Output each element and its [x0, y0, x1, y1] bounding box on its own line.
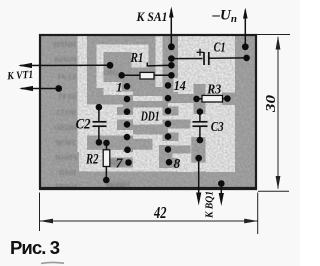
C1 plus sign — [197, 49, 204, 56]
white island left channel W3 — [97, 45, 104, 89]
BQ short arrow — [219, 193, 224, 206]
bottom cropped figure hint — [41, 262, 64, 263]
svg-text:Рис. 3: Рис. 3 — [10, 237, 60, 258]
right ext top (board edge extension) — [256, 34, 290, 36]
pad R1 right — [168, 72, 175, 79]
wire K VT1 #1 — [20, 64, 110, 66]
wire -Un up — [244, 10, 246, 47]
-Un arrow — [243, 8, 248, 19]
svg-text:КОНЧ: КОНЧ — [54, 55, 77, 64]
svg-text:ЕГХІ: ЕГХІ — [58, 72, 76, 81]
pad R1 left — [118, 72, 125, 79]
white left comb base — [87, 105, 123, 169]
dim 42 right arrowhead — [244, 219, 258, 224]
pad C3 top — [197, 108, 204, 115]
pad VT1 wire1 — [107, 62, 114, 69]
white R1 label area W4 — [132, 45, 149, 68]
svg-text:ХНЗВ: ХНЗВ — [56, 138, 76, 147]
pad DD1 pin 14 — [165, 82, 172, 89]
white strip W1 left — [78, 36, 88, 152]
board copper background — [40, 35, 256, 188]
pad K BQ1 b — [218, 180, 225, 187]
pad -Un — [242, 43, 249, 50]
pin1 block — [122, 82, 141, 92]
capacitor C3 plates — [193, 122, 208, 126]
pad DD1 pin 6 — [124, 147, 131, 154]
white center IC channel — [133, 88, 163, 168]
ghost show-through text on copper — [52, 40, 130, 191]
wire node y66 stub — [146, 63, 148, 67]
svg-text:C2: C2 — [76, 117, 91, 133]
pad VT1 wire2 — [55, 85, 62, 92]
bottom dim line — [40, 220, 258, 222]
wire R3 right lead — [223, 98, 228, 100]
dim 30 top arrowhead — [276, 36, 281, 50]
tooth3 — [117, 107, 133, 115]
svg-text:C3: C3 — [211, 119, 224, 134]
white top channel W2 — [97, 45, 149, 53]
pad DD1 pin 13 — [165, 95, 172, 102]
svg-text:7: 7 — [116, 157, 124, 172]
svg-text:R3: R3 — [206, 82, 221, 97]
dim 42 left arrowhead — [40, 219, 54, 224]
svg-text:14: 14 — [174, 78, 186, 93]
wire R3 left lead — [197, 98, 203, 100]
wire C1 right lead — [210, 57, 247, 59]
pads — [55, 43, 250, 186]
svg-text:R2: R2 — [85, 152, 99, 168]
island right extension under R1 — [132, 68, 156, 88]
pad R2 bottom — [103, 177, 110, 184]
pad DD1 pin 3 — [124, 108, 131, 115]
svg-text:1: 1 — [116, 80, 123, 95]
K VT1 arrow 1 — [18, 63, 32, 68]
pad DD1 pin 8 — [166, 159, 173, 166]
pad R2 top — [103, 140, 110, 147]
white center channel W5 — [156, 36, 163, 88]
pad node y66 — [168, 62, 175, 69]
svg-text:DD1: DD1 — [140, 109, 160, 124]
pad C2 bottom — [96, 139, 103, 146]
pad R3 left — [193, 96, 200, 103]
svg-text:R1: R1 — [130, 50, 144, 65]
pad DD1 pin 2 — [124, 96, 131, 103]
pad DD1 pin 5 — [124, 134, 131, 141]
svg-text:ІНОЮ: ІНОЮ — [53, 123, 77, 132]
board dark frame — [40, 35, 256, 188]
wire node y66 horizontal — [147, 64, 171, 67]
pin7 strip — [110, 158, 133, 168]
svg-text:ИНЫЕ: ИНЫЕ — [52, 40, 76, 49]
svg-text:ОІО: ОІО — [103, 68, 118, 77]
wire C3 bottom lead — [199, 127, 201, 141]
extension line bottom right — [257, 193, 259, 235]
gray trace overlays — [87, 52, 235, 168]
pad C1 left — [168, 55, 175, 62]
wire K BQ1 short — [220, 184, 222, 200]
resistor R2 body — [103, 150, 110, 167]
R3 right tooth — [222, 93, 235, 106]
svg-text:К BQ1: К BQ1 — [205, 191, 216, 219]
wire K BQ1 long — [198, 158, 200, 198]
wire C3 top lead — [199, 112, 201, 121]
pad DD1 pin 11 — [165, 121, 172, 128]
wire R1 left lead — [122, 74, 140, 76]
pad K SA1 — [168, 43, 175, 50]
middle strip lower — [191, 137, 203, 163]
pad DD1 pin 4 — [124, 121, 131, 128]
K VT1 arrow 2 — [19, 86, 33, 91]
pad K BQ1 a — [195, 155, 202, 162]
pad R3 right — [224, 95, 231, 102]
svg-text:ВОТЗ: ВОТЗ — [56, 108, 76, 117]
pad DD1 pin 7 — [125, 159, 132, 166]
wire C1 left lead — [171, 58, 202, 60]
tooth2 — [87, 95, 116, 105]
white top-right area W6 — [178, 36, 235, 84]
svg-text:–Uп: –Uп — [212, 8, 237, 26]
wire K SA1 up — [170, 9, 172, 47]
pad DD1 pin 10 — [165, 133, 172, 140]
svg-text:НЧІЄ: НЧІЄ — [57, 168, 76, 177]
white bottom gap — [87, 168, 235, 172]
right pins 7-8 block — [159, 145, 173, 168]
island — [104, 52, 132, 82]
center finger F2 — [133, 101, 168, 108]
wire C2 bottom lead — [98, 127, 100, 143]
svg-text:К SA1: К SA1 — [136, 10, 168, 24]
center finger F4 — [133, 139, 153, 150]
svg-text:30: 30 — [264, 95, 279, 113]
svg-text:ЫНОІ: ЫНОІ — [55, 153, 77, 162]
wire C2 top lead — [98, 107, 100, 121]
pad C3 bottom — [197, 137, 204, 144]
center finger F1 — [133, 87, 163, 96]
white island bottom slot — [104, 82, 122, 95]
white etch channels — [78, 36, 236, 172]
resistor R1 body — [140, 72, 154, 79]
right teeth — [163, 94, 206, 103]
arrowheads — [18, 7, 248, 207]
right ext bottom — [258, 190, 289, 192]
wire R1 right lead — [154, 74, 171, 76]
white around C2/R2 — [79, 150, 117, 172]
extension line bottom left — [39, 193, 41, 232]
light dirt over whole board — [41, 36, 255, 187]
BQ long arrow — [196, 193, 201, 206]
white slots between left pins — [122, 92, 134, 96]
capacitor C2 plates — [93, 122, 107, 126]
white right mid area — [174, 78, 194, 92]
capacitor C1 plates — [204, 52, 209, 65]
pad DD1 pin 1 — [124, 83, 131, 90]
svg-text:К VT1: К VT1 — [6, 69, 34, 83]
right dim line — [277, 37, 279, 189]
svg-text:ЗЧ 02: ЗЧ 02 — [58, 92, 77, 101]
svg-text:C1: C1 — [214, 41, 226, 56]
white slots right pins — [163, 103, 194, 107]
svg-text:8: 8 — [174, 156, 181, 171]
pad C1 right — [243, 55, 250, 62]
wire R2 bottom lead — [105, 167, 107, 181]
tooth4 — [117, 120, 133, 131]
pad C2 top — [96, 104, 103, 111]
resistor R3 body — [202, 95, 223, 102]
dimension lines — [40, 35, 291, 235]
middle strip upper (C3 top) — [194, 84, 206, 114]
wire K VT1 #2 — [21, 88, 59, 90]
pin5/6 block — [87, 136, 133, 150]
dim 30 bottom arrowhead — [276, 176, 281, 190]
pad DD1 pin 12 — [165, 108, 172, 115]
pad DD1 pin 9 — [165, 146, 172, 153]
svg-text:42: 42 — [153, 203, 167, 222]
K SA1 arrow — [169, 7, 174, 18]
center finger F3 below DD1 — [133, 125, 168, 135]
wire R2 top lead — [106, 143, 108, 150]
